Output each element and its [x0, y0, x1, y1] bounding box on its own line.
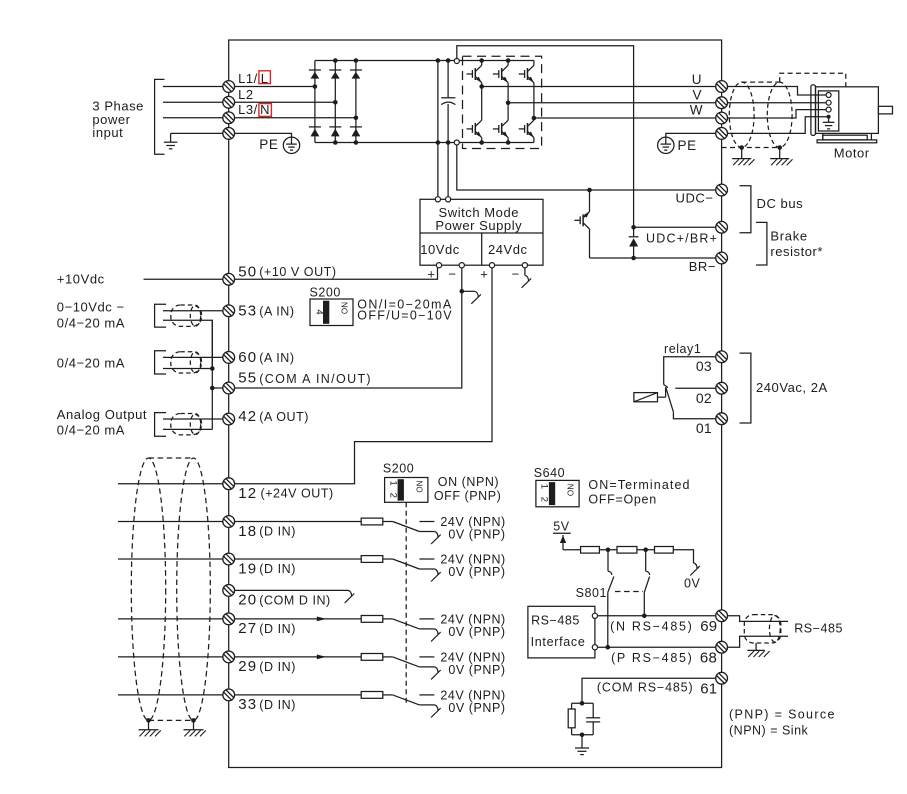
svg-text:50: 50	[238, 263, 257, 280]
RS-485 Interface label	[531, 614, 586, 649]
svg-text:(+24V OUT): (+24V OUT)	[261, 487, 334, 501]
drive enclosure outline	[229, 40, 722, 768]
svg-text:69: 69	[700, 618, 717, 635]
svg-text:(PNP) = Source: (PNP) = Source	[729, 707, 836, 721]
svg-text:N: N	[260, 102, 270, 117]
open switch hook 19	[431, 569, 441, 582]
resistor digital input 27	[361, 616, 383, 623]
terminal UDC-	[716, 184, 728, 196]
earth ground RC	[575, 748, 589, 755]
svg-text:(A IN): (A IN)	[259, 351, 294, 365]
DIP switch S200 digital	[385, 478, 428, 503]
wire 60 signal	[163, 356, 229, 358]
wire common bus analog	[211, 320, 213, 429]
IGBT lower column1	[467, 87, 482, 143]
node DC- connector circle	[454, 140, 459, 145]
brake IGBT Q7	[574, 190, 589, 258]
IGBT upper column2	[493, 61, 508, 103]
wire 19 after resistor	[383, 558, 393, 560]
terminal 42	[223, 413, 235, 425]
red box L	[259, 71, 271, 86]
svg-text:(COM A IN/OUT): (COM A IN/OUT)	[259, 372, 372, 386]
svg-text:Brake: Brake	[770, 229, 807, 244]
chassis ground digital shield 1	[139, 730, 161, 737]
svg-text:19: 19	[238, 560, 257, 577]
resistor digital input 19	[361, 556, 383, 563]
cable shield analog 60	[171, 352, 202, 373]
junction 60 return	[210, 366, 215, 371]
wire shield to motor	[728, 117, 827, 134]
wire 33 after resistor	[383, 694, 393, 696]
svg-text:−: −	[448, 267, 456, 282]
DC bus capacitor C1	[441, 98, 455, 105]
svg-text:DC bus: DC bus	[757, 196, 804, 211]
wire P RS-485 68	[598, 646, 716, 648]
wire 27 external	[118, 618, 229, 620]
wire N RS-485 69	[598, 615, 716, 617]
svg-text:0V (PNP): 0V (PNP)	[448, 701, 505, 715]
terminal 18	[223, 516, 235, 528]
digital cable shield ellipse 2	[177, 458, 211, 720]
svg-text:(D IN): (D IN)	[259, 622, 296, 636]
wire R1-R2	[599, 549, 617, 551]
svg-text:2: 2	[387, 493, 398, 499]
terminal 42 label	[238, 408, 309, 425]
arrow 29 wire	[317, 655, 327, 660]
PE earth circle right	[658, 133, 716, 153]
RS-485 cable shield	[744, 615, 781, 643]
svg-text:(NPN) = Sink: (NPN) = Sink	[729, 724, 809, 738]
wire 53 signal	[163, 310, 229, 312]
terminal 55	[223, 382, 235, 394]
rectifier column 2 wire	[334, 61, 336, 143]
resistor digital input 33	[361, 692, 383, 699]
terminal 02	[716, 382, 728, 394]
shield ground junction 2	[777, 145, 782, 158]
svg-text:1: 1	[387, 481, 398, 487]
svg-text:10Vdc: 10Vdc	[420, 242, 460, 257]
DC bus bracket	[740, 186, 751, 233]
wire 29 after resistor	[383, 656, 393, 658]
terminal 60 label	[238, 349, 294, 366]
junction 55 common	[210, 386, 215, 391]
input bracket	[155, 79, 165, 154]
terminal BR-	[716, 252, 728, 264]
svg-text:L3/: L3/	[238, 102, 258, 117]
resistor digital input 18	[361, 518, 383, 525]
svg-text:ON=Terminated: ON=Terminated	[588, 478, 690, 492]
svg-text:0V (PNP): 0V (PNP)	[448, 663, 505, 677]
svg-text:60: 60	[238, 349, 257, 366]
bracket analog input 60	[155, 351, 167, 374]
node U tap	[479, 84, 484, 89]
svg-text:55: 55	[238, 370, 257, 387]
wire 50 to SMPS plus	[229, 268, 438, 280]
terminal 12	[223, 478, 235, 490]
IGBT lower column2	[493, 103, 508, 143]
0V PNP stub 18	[419, 531, 434, 533]
open switch hook 0V	[690, 563, 700, 576]
junction dots DC rails	[436, 58, 451, 145]
rectifier diode lower	[309, 127, 321, 136]
svg-text:(COM RS−485): (COM RS−485)	[597, 681, 694, 695]
motor cable shield bottom dashed link	[722, 147, 780, 149]
svg-text:−: −	[512, 267, 520, 282]
wire U to motor	[728, 87, 826, 96]
RS-485 cable ground stub	[755, 643, 757, 650]
wire V output	[508, 102, 715, 104]
svg-text:42: 42	[238, 408, 257, 425]
brake resistor bracket	[756, 222, 767, 265]
svg-text:27: 27	[238, 620, 257, 637]
svg-text:RS−485: RS−485	[531, 614, 580, 628]
svg-text:0V (PNP): 0V (PNP)	[448, 625, 505, 639]
node W tap	[532, 116, 537, 121]
relay moving blade	[666, 387, 674, 412]
wire L2 to rectifier	[229, 101, 336, 103]
wire 55 stub	[212, 387, 228, 389]
Brake resistor label	[770, 229, 823, 259]
resistor termination R2	[617, 547, 637, 554]
S640 description	[588, 478, 690, 506]
svg-text:L: L	[261, 71, 269, 86]
svg-text:(D IN): (D IN)	[259, 525, 296, 539]
S801 dashed gang link	[615, 591, 643, 593]
switch S801a	[608, 550, 614, 647]
terminal 69	[716, 610, 728, 622]
svg-text:relay1: relay1	[664, 342, 701, 356]
wire W to motor	[728, 110, 826, 118]
24V NPN stub 29	[419, 656, 434, 658]
PE earth circle input	[229, 133, 300, 153]
svg-text:20: 20	[238, 592, 257, 609]
terminal 19 label	[238, 560, 296, 577]
red box N	[259, 102, 272, 117]
switch blade 33	[393, 695, 420, 705]
terminal 61 label	[597, 680, 717, 697]
5V supply	[553, 519, 571, 549]
chassis ground RS-485 cable	[747, 650, 769, 657]
rectifier diode lower	[350, 127, 362, 136]
motor M1	[811, 85, 893, 143]
3 Phase power input label	[92, 99, 144, 141]
terminal 61	[716, 672, 728, 684]
svg-text:01: 01	[696, 420, 712, 436]
IGBT upper column1	[467, 61, 482, 87]
wire 19 external	[118, 558, 229, 560]
svg-text:ON: ON	[340, 302, 349, 314]
open switch hook 20	[345, 590, 355, 603]
open switch hook 33	[431, 705, 441, 718]
svg-text:L2: L2	[238, 87, 254, 102]
IGBT lower column3	[519, 118, 534, 143]
dashed mode select line	[405, 502, 407, 706]
open switch hook 18	[431, 532, 441, 545]
junction L2 to column2	[333, 100, 338, 105]
terminal L1	[223, 81, 235, 93]
svg-text:UDC+/BR+: UDC+/BR+	[646, 231, 718, 245]
interface pin P circle	[592, 645, 597, 650]
RS-485 Interface box U3	[528, 606, 595, 658]
wire 12 external	[118, 483, 229, 485]
svg-text:V: V	[692, 88, 702, 103]
resistor termination R3	[655, 547, 674, 554]
resistor digital input 29	[361, 654, 383, 661]
S200 digital ON description	[434, 475, 501, 503]
wire 29 to resistor	[229, 656, 362, 658]
wire PE input	[171, 132, 229, 134]
terminal 12 label	[238, 485, 333, 502]
svg-text:ON: ON	[415, 480, 424, 492]
wire DC+ loop to UDC+	[457, 46, 634, 228]
svg-text:S200: S200	[383, 461, 414, 475]
wire L3 to rectifier	[229, 117, 356, 119]
svg-text:(COM D IN): (COM D IN)	[259, 593, 330, 607]
wire 18 after resistor	[383, 521, 393, 523]
motor cable shield dashed run to motor	[780, 73, 846, 87]
svg-text:0/4−20 mA: 0/4−20 mA	[57, 316, 125, 331]
svg-text:(A OUT): (A OUT)	[259, 410, 309, 424]
input earth ground	[164, 133, 178, 148]
junction BR- diode bottom	[631, 256, 636, 261]
wire 27 to resistor	[229, 618, 362, 620]
svg-text:+10Vdc: +10Vdc	[57, 271, 105, 286]
svg-text:53: 53	[238, 303, 257, 320]
wire 20 common	[229, 589, 348, 591]
RS-485 cable wires	[728, 616, 788, 647]
terminal 33	[223, 689, 235, 701]
svg-text:W: W	[690, 103, 703, 118]
switch mode power supply U2	[420, 199, 543, 265]
relay contact 03 wire	[664, 357, 716, 388]
svg-text:12: 12	[238, 485, 257, 502]
wire +10Vdc external	[144, 278, 229, 280]
wire U output	[482, 86, 716, 88]
24V NPN stub 18	[419, 521, 434, 523]
wire R3 to 0V switch	[673, 550, 693, 563]
svg-text:1: 1	[539, 484, 550, 490]
svg-text:RS−485: RS−485	[794, 622, 843, 636]
terminal 19	[223, 553, 235, 565]
terminal 33 label	[238, 696, 296, 713]
svg-text:24Vdc: 24Vdc	[488, 242, 528, 257]
svg-text:(D IN): (D IN)	[259, 660, 296, 674]
junction S801b to 69	[642, 614, 647, 619]
relay coil K1	[634, 387, 666, 402]
terminal 18 label	[238, 523, 296, 540]
wire V to motor	[728, 102, 826, 104]
svg-text:61: 61	[700, 680, 717, 697]
wire W output	[534, 117, 716, 119]
wire BR-	[590, 257, 716, 259]
svg-text:Power Supply: Power Supply	[435, 218, 522, 233]
0V PNP stub 19	[419, 568, 434, 570]
SMPS output pin circles	[436, 263, 527, 268]
svg-text:+: +	[480, 267, 488, 282]
wire 55 to SMPS 10V minus	[229, 268, 462, 388]
terminal 50 label	[238, 263, 336, 280]
motor cable shield top dashed link	[742, 81, 780, 83]
svg-text:ON: ON	[567, 484, 576, 496]
node DC+ connector circle	[454, 59, 459, 64]
junction dots inverter rails	[479, 58, 510, 145]
svg-text:(D IN): (D IN)	[259, 698, 296, 712]
DC rail 2 wire lower	[447, 104, 449, 197]
junction S801a to 68	[606, 645, 611, 650]
wire L1 to rectifier	[229, 86, 315, 88]
rectifier diode upper	[350, 70, 362, 79]
wire 29 external	[118, 656, 229, 658]
node V tap	[506, 100, 511, 105]
svg-text:0V: 0V	[684, 577, 701, 591]
wire 42 signal	[163, 418, 229, 420]
rectifier column 1 wire	[314, 61, 316, 143]
24V NPN stub 33	[419, 694, 434, 696]
junction 10Vdc minus	[460, 289, 465, 294]
RC termination network	[568, 701, 600, 737]
svg-text:OFF=Open: OFF=Open	[588, 492, 656, 506]
SMPS input pin circles	[435, 197, 450, 202]
open switch hook 10Vdc minus	[462, 291, 481, 304]
wire 42 return	[163, 428, 212, 430]
wire 33 to resistor	[229, 694, 362, 696]
relay common 02 wire	[675, 387, 715, 389]
junction pullup node N	[606, 548, 611, 553]
svg-text:0V (PNP): 0V (PNP)	[448, 565, 505, 579]
switch blade 27	[393, 619, 420, 629]
svg-text:0V (PNP): 0V (PNP)	[448, 528, 505, 542]
shield ground junction 1	[739, 145, 744, 158]
terminal W	[716, 112, 728, 124]
wire 53 return	[163, 320, 212, 368]
S200 analog ON description	[357, 298, 453, 323]
terminal V	[716, 97, 728, 109]
relay contact 01 wire	[673, 413, 715, 419]
wire R2-R3	[637, 549, 655, 551]
terminal L3	[223, 112, 235, 124]
svg-text:0/4−20 mA: 0/4−20 mA	[57, 355, 125, 370]
24V NPN stub 27	[419, 618, 434, 620]
24V NPN stub 19	[419, 558, 434, 560]
svg-text:2: 2	[539, 497, 550, 503]
wire COM RS-485 61	[582, 678, 715, 703]
svg-text:68: 68	[700, 650, 717, 667]
chassis ground motor cable 1	[732, 159, 754, 166]
terminal 50	[223, 273, 235, 285]
rectifier diode lower	[329, 127, 341, 136]
svg-text:UDC−: UDC−	[676, 191, 714, 206]
switch blade 19	[393, 559, 420, 569]
wire L3 input	[163, 117, 229, 119]
svg-text:S200: S200	[310, 285, 341, 299]
svg-text:ON (NPN): ON (NPN)	[438, 475, 499, 489]
DIP switch S640	[536, 480, 579, 506]
wire 19 to resistor	[229, 558, 362, 560]
svg-text:Interface: Interface	[531, 635, 586, 649]
terminal 27	[223, 613, 235, 625]
digital shield ground junction 2	[191, 718, 196, 730]
wire DC- to UDC-	[457, 145, 716, 190]
svg-text:(D IN): (D IN)	[259, 562, 296, 576]
terminal PE input	[223, 127, 235, 139]
bracket analog input 53	[155, 304, 167, 327]
svg-text:(P RS−485): (P RS−485)	[611, 651, 693, 665]
terminal 20	[223, 585, 235, 597]
svg-text:PE: PE	[678, 138, 697, 153]
0V PNP stub 33	[419, 704, 434, 706]
svg-text:PE: PE	[259, 137, 278, 152]
svg-text:(+10 V OUT): (+10 V OUT)	[259, 265, 336, 279]
wire 18 external	[118, 521, 229, 523]
svg-text:29: 29	[238, 658, 257, 675]
svg-text:S801: S801	[576, 586, 607, 600]
wire 60 return	[163, 368, 212, 370]
junction dots rectifier buses	[333, 58, 358, 145]
terminal L2	[223, 96, 235, 108]
terminal 60	[223, 352, 235, 364]
interface pin N circle	[592, 613, 597, 618]
wire 12 to SMPS 24V plus	[229, 268, 492, 484]
svg-text:02: 02	[696, 390, 712, 406]
bracket analog output 42	[155, 413, 167, 437]
svg-text:Analog Output: Analog Output	[57, 407, 147, 422]
0-10Vdc label	[57, 300, 125, 331]
junction brake IGBT collector	[587, 188, 592, 193]
svg-text:03: 03	[696, 358, 712, 374]
junction UDC+ diode top	[631, 225, 636, 230]
wire L2 input	[163, 101, 229, 103]
open switch hook 27	[431, 629, 441, 642]
terminal 69 label	[610, 618, 717, 635]
wire RC to earth	[581, 735, 583, 748]
svg-text:0−10Vdc −: 0−10Vdc −	[57, 300, 125, 315]
svg-text:18: 18	[238, 523, 257, 540]
svg-text:4: 4	[314, 309, 325, 315]
terminal UDC+/BR+	[716, 221, 728, 233]
switch blade 18	[393, 522, 420, 532]
wire 33 external	[118, 694, 229, 696]
terminal 03	[716, 351, 728, 363]
terminal 55 label	[238, 370, 372, 387]
svg-text:(A IN): (A IN)	[259, 304, 294, 318]
DIP switch S200 analog	[310, 299, 353, 326]
wire 27 after resistor	[383, 618, 393, 620]
digital shield bottom dashed link	[149, 719, 194, 721]
terminal 29 label	[238, 658, 296, 675]
chassis ground digital shield 2	[184, 730, 206, 737]
cable shield analog 53	[171, 305, 202, 326]
inverter module dashed box	[463, 56, 542, 148]
motor cable shield ellipse 2	[767, 82, 792, 147]
digital cable shield ellipse 1	[131, 458, 165, 720]
relay rating bracket	[740, 353, 751, 423]
svg-text:BR−: BR−	[689, 259, 716, 274]
svg-text:S640: S640	[534, 466, 565, 480]
terminal 20 label	[238, 592, 330, 609]
svg-text:(N RS−485): (N RS−485)	[610, 620, 693, 634]
terminal 68	[716, 641, 728, 653]
inverter top rail	[459, 60, 534, 62]
rectifier top bus	[315, 60, 454, 62]
terminal 01	[716, 413, 728, 425]
junction pulldown node P	[643, 548, 648, 553]
terminal 68 label	[611, 650, 717, 667]
svg-text:5V: 5V	[553, 519, 570, 533]
wire UDC+ to terminal	[634, 226, 716, 228]
svg-text:U: U	[692, 72, 702, 87]
resistor termination R1	[581, 547, 600, 554]
DC rail 2 wire upper	[447, 61, 449, 98]
